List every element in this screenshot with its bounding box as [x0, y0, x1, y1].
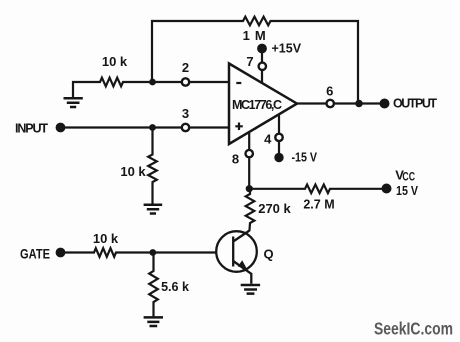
svg-text:3: 3	[182, 106, 189, 121]
svg-text:2.7 M: 2.7 M	[303, 198, 334, 212]
svg-text:7: 7	[246, 54, 253, 69]
svg-text:10 k: 10 k	[102, 54, 128, 69]
svg-text:+15V: +15V	[272, 42, 302, 56]
svg-text:Q: Q	[264, 247, 274, 262]
svg-text:GATE: GATE	[20, 246, 50, 262]
svg-text:270 k: 270 k	[258, 201, 291, 216]
svg-text:1: 1	[243, 28, 250, 43]
svg-text:4: 4	[264, 132, 272, 147]
svg-text:SeekIC.com: SeekIC.com	[374, 319, 453, 339]
svg-text:MC1776,C: MC1776,C	[232, 98, 282, 112]
svg-text:5.6 k: 5.6 k	[161, 280, 189, 294]
svg-text:INPUT: INPUT	[15, 122, 48, 136]
svg-text:2: 2	[182, 60, 189, 75]
svg-text:-15 V: -15 V	[292, 151, 318, 165]
svg-text:10 k: 10 k	[93, 231, 119, 246]
svg-text:15 V: 15 V	[396, 184, 419, 198]
svg-text:6: 6	[326, 84, 333, 99]
svg-text:8: 8	[232, 151, 239, 166]
svg-text:M: M	[255, 28, 266, 43]
svg-text:10 k: 10 k	[120, 164, 146, 179]
svg-text:OUTPUT: OUTPUT	[393, 97, 437, 111]
svg-text:CC: CC	[402, 169, 415, 183]
